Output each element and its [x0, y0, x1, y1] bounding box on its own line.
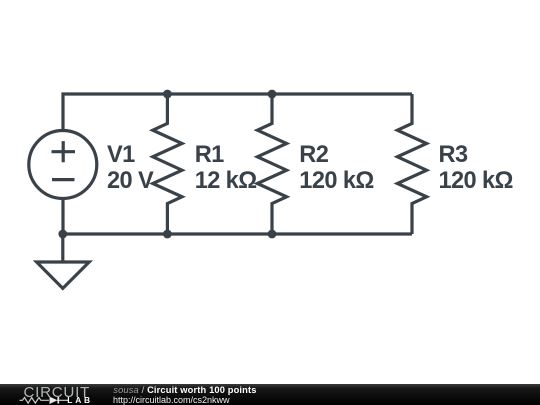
node dot top R1: [163, 90, 172, 99]
logo diode: [50, 397, 58, 404]
node dot bottom V1: [58, 230, 67, 239]
svg-text:http://circuitlab.com/cs2nkww: http://circuitlab.com/cs2nkww: [113, 395, 230, 405]
ground: [37, 234, 90, 288]
node dot bottom R1: [163, 230, 172, 239]
logo zigzag wire: [20, 398, 49, 404]
wire top net: [63, 94, 412, 129]
svg-text:sousa / Circuit worth 100 poin: sousa / Circuit worth 100 points: [113, 385, 256, 395]
resistor R3: [397, 94, 426, 234]
svg-text:LAB: LAB: [67, 395, 93, 405]
resistor R2: [257, 94, 286, 234]
wire bottom net: [63, 200, 412, 234]
footer bar: [0, 384, 540, 405]
resistor R1: [153, 94, 182, 234]
voltage source V1: [29, 131, 97, 199]
node dot bottom R2: [268, 230, 277, 239]
node dot top R2: [268, 90, 277, 99]
